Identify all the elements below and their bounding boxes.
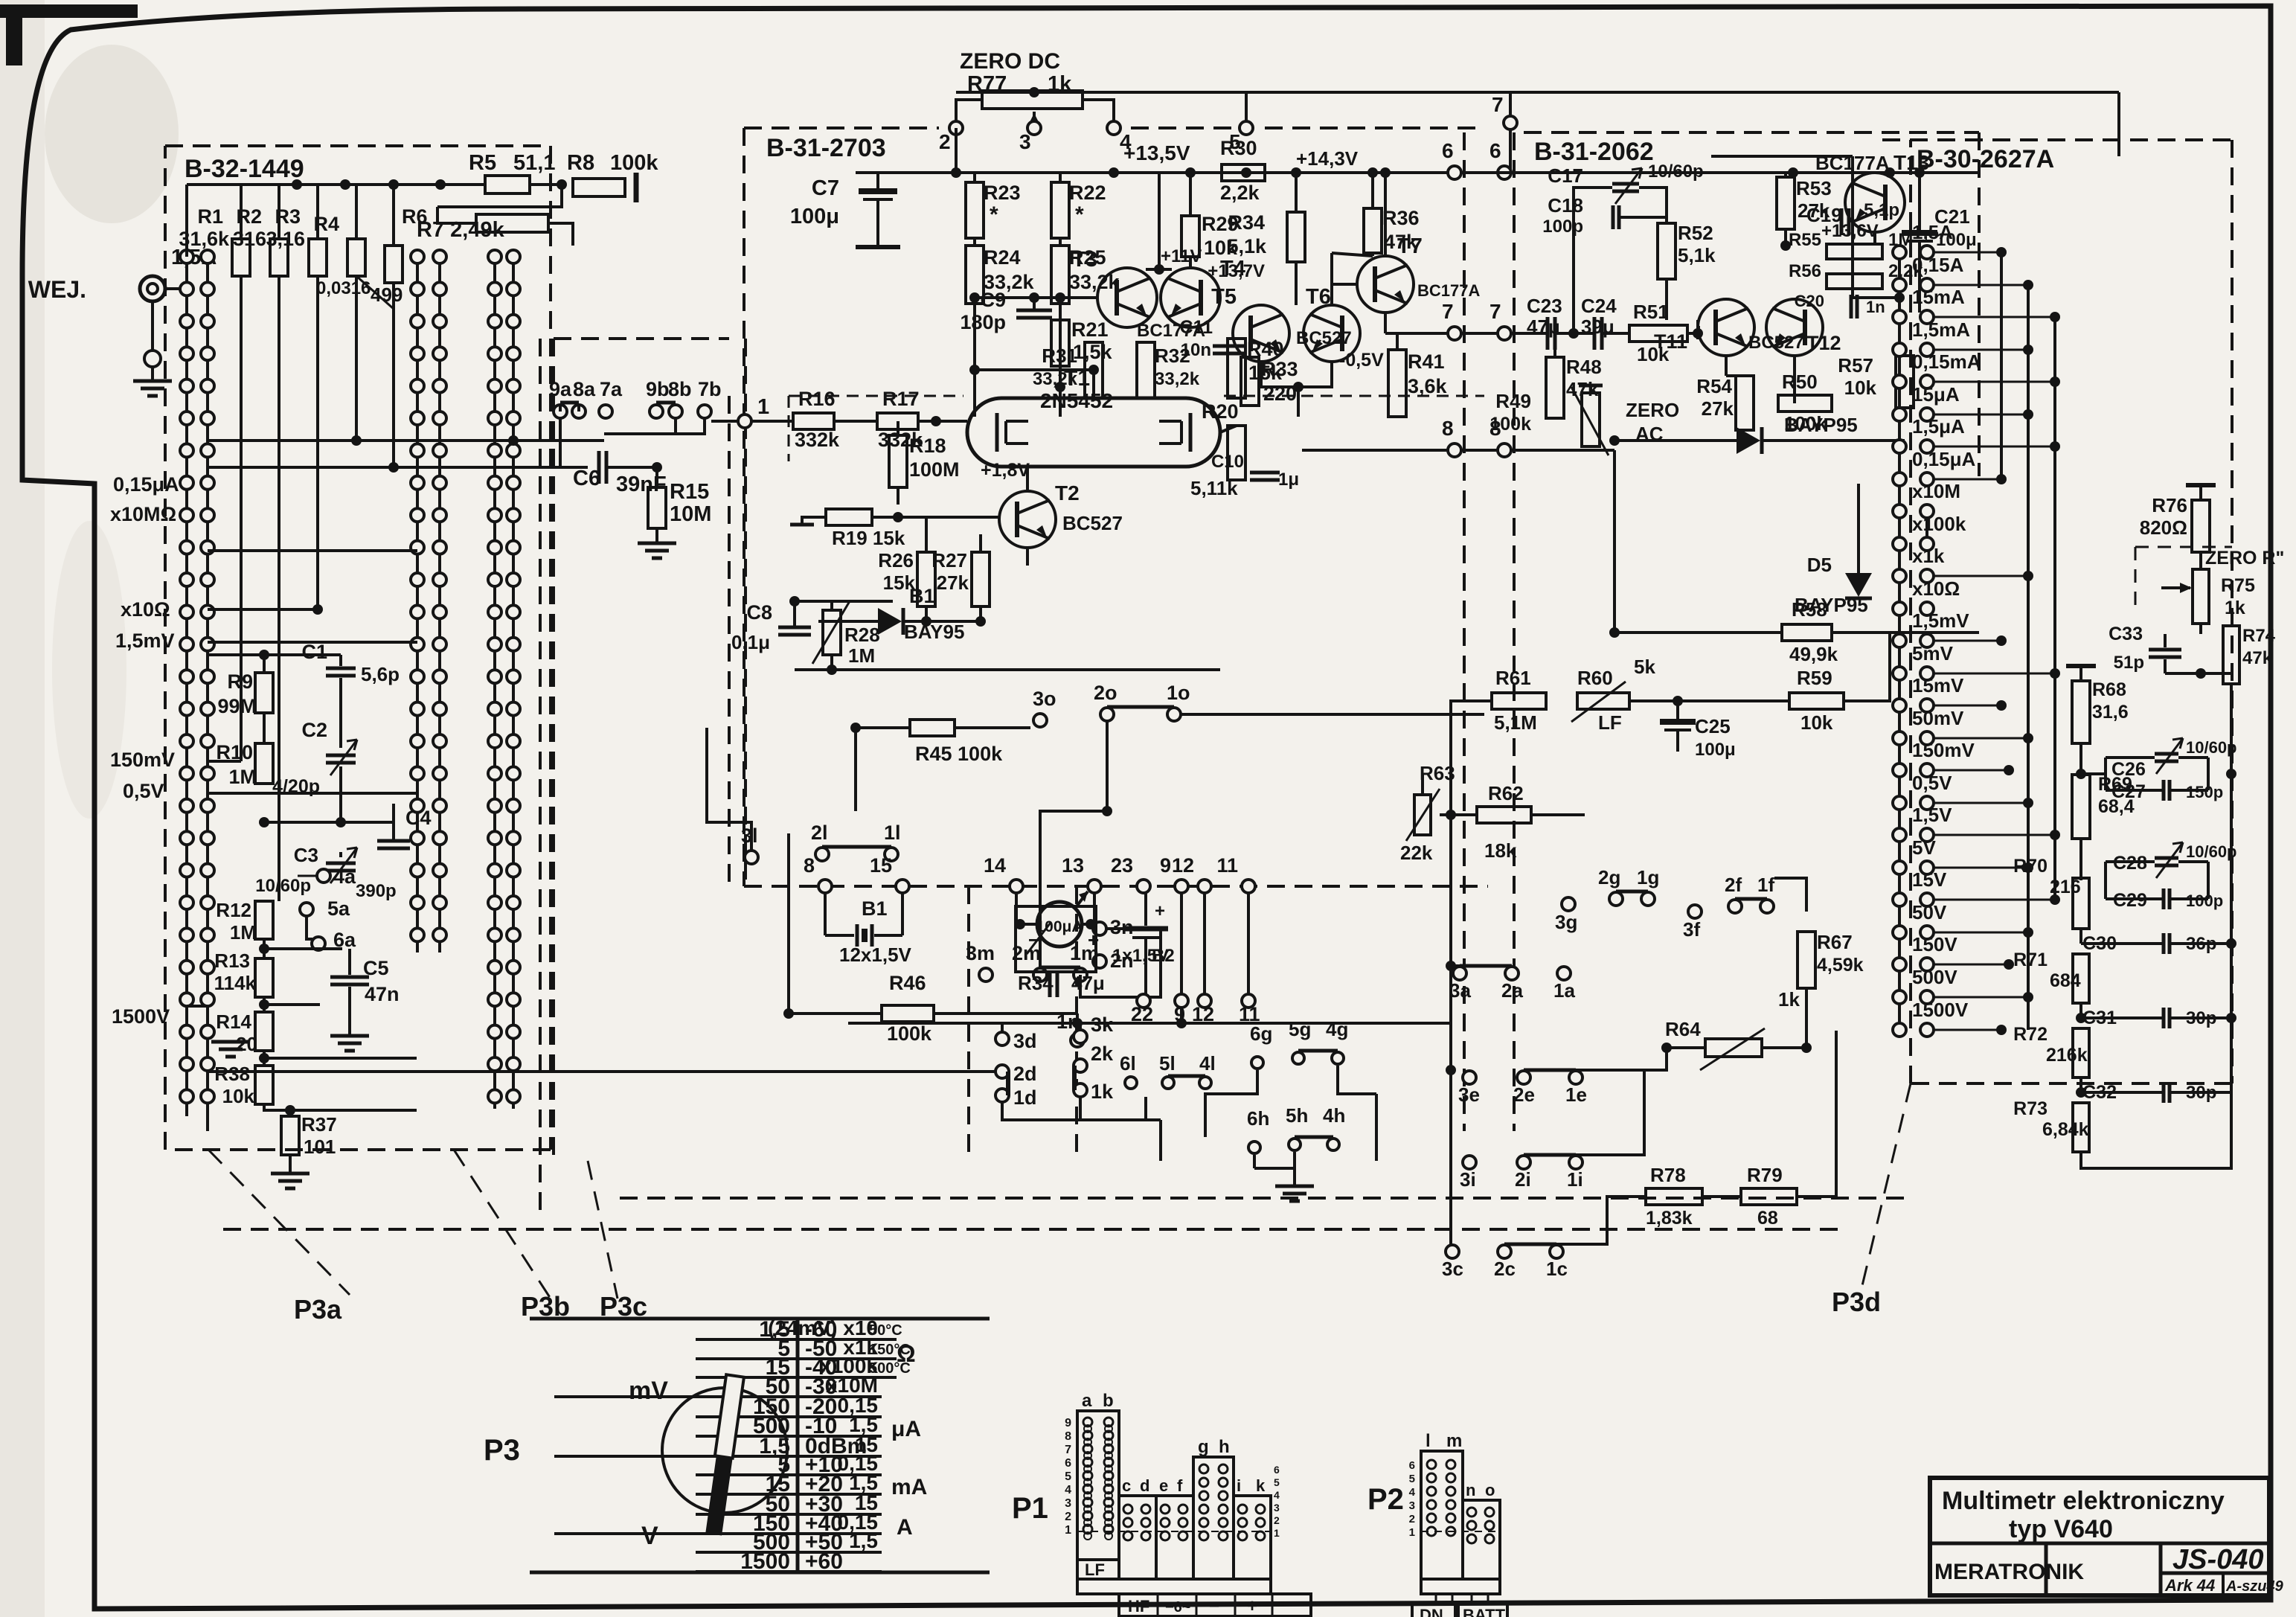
svg-text:5,1p: 5,1p <box>1864 200 1899 220</box>
wire C9 node <box>975 296 1060 299</box>
terminal ground leg <box>151 301 154 350</box>
svg-text:R12: R12 <box>216 899 251 921</box>
resistor R21 <box>1051 320 1069 366</box>
contact 3o <box>1033 714 1047 727</box>
svg-text:820Ω: 820Ω <box>2140 516 2187 539</box>
transistor T5 <box>1233 305 1289 362</box>
wire row to node 1 <box>711 420 738 423</box>
svg-text:2: 2 <box>1065 1511 1071 1523</box>
contact column A3 <box>416 257 419 952</box>
svg-text:o: o <box>1485 1481 1495 1499</box>
wire R9 top <box>263 655 266 673</box>
bridge 5l-4l <box>1168 1075 1205 1078</box>
resistor R57 <box>1896 356 1914 408</box>
resistor R12 <box>255 901 273 939</box>
svg-text:T11: T11 <box>1654 330 1687 353</box>
wire right drop to D top <box>2117 92 2120 156</box>
svg-text:5: 5 <box>1065 1470 1071 1483</box>
wire 2d bar <box>1006 1072 1010 1095</box>
contact pair 1,5mV <box>1893 634 1906 647</box>
wire R74 <box>2231 610 2232 626</box>
svg-text:3i: 3i <box>1460 1168 1476 1191</box>
svg-text:1,5: 1,5 <box>849 1529 878 1552</box>
wire 7b to node 1 <box>604 418 705 434</box>
wire D4 <box>1614 439 1737 442</box>
contact 8a <box>572 405 586 418</box>
resistor R46 <box>882 1005 934 1022</box>
svg-text:MERATRONIK: MERATRONIK <box>1934 1560 2084 1584</box>
svg-text:1,5k: 1,5k <box>1073 341 1113 363</box>
svg-text:216k: 216k <box>2046 1045 2088 1066</box>
transistor T4 <box>1161 268 1220 327</box>
resistor R33 <box>1241 357 1259 406</box>
svg-text:R76: R76 <box>2152 494 2187 516</box>
wire R5 to R8 <box>530 183 562 186</box>
resistor R23 <box>966 182 984 238</box>
svg-text:6h: 6h <box>1247 1107 1269 1130</box>
svg-text:R9: R9 <box>227 670 253 693</box>
ground <box>133 380 172 383</box>
wire C6 to R15 <box>607 466 657 469</box>
transistor T3 <box>1097 268 1157 327</box>
wire 9a down to C6 <box>560 418 588 467</box>
svg-text:1: 1 <box>757 395 769 419</box>
capacitor C32 <box>2162 1082 2166 1103</box>
wire C23-C24 <box>1556 332 1594 335</box>
battery B2 <box>1144 893 1147 926</box>
svg-text:47μ: 47μ <box>1071 972 1105 994</box>
diode B1 <box>878 608 902 635</box>
diode D5 <box>1845 573 1872 597</box>
svg-text:7b: 7b <box>698 378 722 400</box>
svg-text:Ω: Ω <box>897 1340 916 1367</box>
svg-text:R79: R79 <box>1747 1164 1783 1186</box>
P1 cd box <box>1119 1496 1156 1579</box>
resistor R54 <box>1736 376 1754 430</box>
svg-text:2: 2 <box>939 130 951 153</box>
contact 2m <box>1033 968 1047 982</box>
wire R78-R79 <box>1702 1195 1741 1198</box>
transistor T2 <box>999 491 1056 548</box>
wire R18 bottom <box>897 487 900 505</box>
svg-text:5h: 5h <box>1286 1104 1308 1127</box>
wire R64 right <box>1762 1046 1806 1049</box>
contact pair 150mV <box>1893 763 1906 777</box>
wire top row to 7 <box>956 91 2119 94</box>
P2 no box <box>1463 1500 1500 1579</box>
wire T12 emitter <box>1793 356 1796 403</box>
svg-text:+1,8V: +1,8V <box>981 460 1030 481</box>
svg-text:316: 316 <box>233 228 266 250</box>
resistor R45 <box>910 720 955 736</box>
svg-text:6g: 6g <box>1250 1022 1272 1045</box>
contact 6a <box>312 937 325 950</box>
svg-text:6: 6 <box>1065 1457 1071 1470</box>
svg-text:BAYP95: BAYP95 <box>1784 414 1858 436</box>
svg-text:m: m <box>1446 1431 1462 1451</box>
wire D5 <box>1858 441 1859 573</box>
resistor R20 <box>1228 426 1245 480</box>
contact column A2 <box>206 257 209 1116</box>
svg-text:h: h <box>1219 1437 1230 1457</box>
resistor R58 <box>1782 624 1832 641</box>
svg-text:+: + <box>1247 1596 1257 1616</box>
wire R61 left <box>1451 701 1492 714</box>
wire R73 bottom <box>2081 1092 2231 1168</box>
svg-text:8: 8 <box>804 854 815 877</box>
svg-text:2,2k: 2,2k <box>1220 182 1260 204</box>
svg-text:B1: B1 <box>862 897 888 920</box>
svg-text:2i: 2i <box>1515 1168 1531 1191</box>
svg-text:B-32-1449: B-32-1449 <box>185 155 304 183</box>
capacitor C11 <box>1213 345 1245 348</box>
node C4 join <box>264 821 394 824</box>
contacts 3a 2a 1a <box>1453 967 1466 980</box>
svg-text:V: V <box>641 1522 658 1550</box>
wire R8 left junction down <box>437 185 562 207</box>
svg-text:R19 15k: R19 15k <box>832 527 905 549</box>
svg-text:114k: 114k <box>214 972 257 994</box>
resistor R67 <box>1798 932 1815 988</box>
wire T7 up <box>1384 173 1387 256</box>
wire R16-R17 <box>834 420 877 423</box>
svg-text:c: c <box>1122 1476 1131 1495</box>
resistor R56 <box>1827 274 1882 289</box>
resistor R3 <box>309 239 327 276</box>
svg-text:R74: R74 <box>2242 626 2276 646</box>
svg-text:10k: 10k <box>222 1085 255 1107</box>
wire long row y592 <box>208 439 604 442</box>
wire right bus <box>2230 699 2233 1092</box>
svg-text:4: 4 <box>1274 1489 1280 1501</box>
svg-text:R37: R37 <box>301 1113 337 1136</box>
wire C17 box <box>1574 188 1612 333</box>
svg-text:R72: R72 <box>2013 1024 2048 1045</box>
svg-text:8: 8 <box>1442 417 1454 440</box>
svg-text:150V: 150V <box>1912 933 1957 955</box>
svg-text:14: 14 <box>984 854 1006 877</box>
svg-text:4h: 4h <box>1323 1104 1345 1127</box>
wire 3a row <box>1451 964 1460 967</box>
svg-text:C1: C1 <box>301 641 327 663</box>
contact pair 15V <box>1893 893 1906 906</box>
resistor R79 <box>1741 1188 1797 1205</box>
svg-text:B-31-2062: B-31-2062 <box>1534 138 1654 166</box>
block box B-31-2703 <box>744 127 939 129</box>
contact pair x10&#937; <box>1893 602 1906 615</box>
capacitor C3 trimmer <box>326 862 356 865</box>
capacitor C30 <box>2162 933 2166 954</box>
bus +13,5V <box>856 171 1484 174</box>
svg-text:2N5452: 2N5452 <box>1040 389 1113 412</box>
svg-text:6: 6 <box>1274 1464 1280 1476</box>
contact 5l <box>1162 1077 1174 1089</box>
svg-text:R36: R36 <box>1382 207 1420 229</box>
svg-text:12x1,5V: 12x1,5V <box>839 944 912 966</box>
svg-text:HF: HF <box>1128 1597 1149 1616</box>
svg-text:LF: LF <box>1085 1560 1105 1579</box>
svg-text:0,5V: 0,5V <box>123 780 164 802</box>
svg-text:+: + <box>1088 929 1099 951</box>
contact 3l <box>745 851 758 864</box>
contact 9 low <box>1175 994 1188 1008</box>
svg-text:1500V: 1500V <box>1912 999 1969 1021</box>
svg-text:101: 101 <box>304 1136 336 1158</box>
P3 top line left <box>530 1317 990 1321</box>
svg-text:a: a <box>1082 1391 1092 1411</box>
svg-text:R61: R61 <box>1495 667 1531 689</box>
wire WEJ to contact column <box>165 287 187 290</box>
wire 8 row <box>1302 449 1448 452</box>
svg-text:R62: R62 <box>1488 782 1524 804</box>
svg-text:1,5V: 1,5V <box>1912 804 1952 826</box>
wire R38-R37 <box>264 1104 290 1116</box>
resistor R38 <box>255 1066 273 1104</box>
P1 bottom strip <box>1077 1579 1271 1594</box>
svg-text:9a: 9a <box>549 378 572 400</box>
svg-text:9: 9 <box>1160 854 1171 877</box>
svg-text:49,9k: 49,9k <box>1789 643 1838 665</box>
svg-text:5V: 5V <box>1912 836 1936 859</box>
svg-text:T12: T12 <box>1806 332 1841 354</box>
svg-text:R60: R60 <box>1577 667 1613 689</box>
contact column A5 <box>493 257 496 1109</box>
capacitor C33 <box>2149 648 2181 652</box>
svg-text:9b: 9b <box>646 378 670 400</box>
svg-text:typ V640: typ V640 <box>2009 1515 2113 1543</box>
contact 9 box B bottom <box>1175 880 1188 893</box>
svg-text:5,1M: 5,1M <box>1494 711 1537 734</box>
leader dashes to P3d <box>1860 1083 1911 1295</box>
diode D4 <box>1737 427 1760 454</box>
resistor R37 <box>281 1116 299 1155</box>
contact 7a <box>599 405 612 418</box>
wire R55 net <box>1786 246 1827 252</box>
capacitor C9 <box>1016 309 1052 313</box>
svg-text:31,6: 31,6 <box>2092 702 2129 723</box>
capacitor C6 <box>597 451 601 484</box>
resistor R41 <box>1388 350 1406 417</box>
svg-text:100M: 100M <box>909 458 960 481</box>
svg-text:R54: R54 <box>1696 375 1732 397</box>
svg-text:g: g <box>1198 1437 1209 1457</box>
svg-text:2g: 2g <box>1598 866 1620 888</box>
svg-text:68,4: 68,4 <box>2098 796 2135 817</box>
wire T2 collector <box>1026 467 1029 491</box>
resistor R14 <box>255 1012 273 1051</box>
svg-text:7: 7 <box>1489 300 1501 323</box>
contacts 3c 2c 1c <box>1446 1245 1459 1258</box>
wire C30 <box>2079 929 2082 944</box>
svg-text:3m: 3m <box>966 942 995 964</box>
svg-text:5a: 5a <box>327 897 350 920</box>
P2 lm box <box>1421 1451 1463 1579</box>
svg-text:5,11k: 5,11k <box>1190 477 1238 499</box>
capacitor C31 <box>2162 1008 2166 1028</box>
svg-text:1,5mV: 1,5mV <box>115 630 175 652</box>
resistor R70 <box>2073 878 2089 929</box>
wire R58 <box>1614 631 1782 634</box>
svg-text:R50: R50 <box>1782 371 1818 393</box>
svg-text:R70: R70 <box>2013 856 2048 877</box>
svg-text:4: 4 <box>1409 1486 1416 1499</box>
svg-text:BC527: BC527 <box>1748 333 1804 353</box>
svg-text:15mA: 15mA <box>1912 286 1965 308</box>
svg-text:1M: 1M <box>228 766 257 788</box>
svg-text:Ark 44: Ark 44 <box>2164 1576 2215 1595</box>
svg-text:1,83k: 1,83k <box>1646 1208 1693 1229</box>
svg-text:2: 2 <box>1274 1514 1280 1526</box>
wire x1150 vertical <box>854 728 857 811</box>
svg-text:d: d <box>1140 1476 1149 1495</box>
svg-text:−: − <box>1028 929 1039 951</box>
resistor R19 <box>826 509 872 525</box>
svg-text:5g: 5g <box>1289 1018 1311 1040</box>
svg-text:R52: R52 <box>1678 222 1713 244</box>
svg-text:i: i <box>1237 1476 1241 1495</box>
wire R13-R14 <box>263 997 266 1012</box>
svg-text:1: 1 <box>1065 1524 1071 1537</box>
wire 2o down <box>1106 722 1109 811</box>
svg-text:R53: R53 <box>1796 177 1832 199</box>
contact pair 15&#956;A <box>1893 408 1906 421</box>
svg-text:100k: 100k <box>887 1022 932 1045</box>
wire 2o chain <box>1040 811 1107 967</box>
wire C31 <box>2079 1003 2082 1018</box>
svg-text:100k: 100k <box>1489 414 1531 435</box>
svg-text:T5: T5 <box>1211 285 1237 309</box>
svg-text:B1: B1 <box>909 585 935 607</box>
svg-text:12: 12 <box>1172 854 1194 877</box>
svg-text:*: * <box>1075 202 1084 227</box>
resistor R22 <box>1051 182 1069 238</box>
P2 dashed line <box>1421 1531 1500 1532</box>
wire join y905 <box>2165 672 2231 675</box>
R8 end bar <box>632 186 635 189</box>
wire R7 ends <box>437 207 476 223</box>
svg-text:100p: 100p <box>2186 891 2223 910</box>
contact 9a <box>554 405 567 418</box>
svg-text:3k: 3k <box>1091 1014 1114 1036</box>
wire 7 drop <box>1509 92 1512 116</box>
contact 3n <box>1093 922 1106 935</box>
capacitor C21 <box>1902 230 1937 236</box>
capacitor C24 <box>1593 317 1597 350</box>
contact 2k <box>1074 1059 1087 1072</box>
svg-text:3l: 3l <box>741 824 758 847</box>
svg-text:C25: C25 <box>1695 715 1731 737</box>
contact pair 150V <box>1893 958 1906 971</box>
wire R24 down <box>973 304 976 417</box>
svg-text:3: 3 <box>1019 130 1031 153</box>
block box B-32-1449 <box>165 144 551 147</box>
svg-text:390p: 390p <box>356 881 397 901</box>
capacitor C8 <box>778 626 811 630</box>
R19 left gnd <box>802 517 826 525</box>
wire R62 <box>1440 813 1477 816</box>
wire long y1560 <box>208 1160 1161 1162</box>
svg-text:18k: 18k <box>1484 839 1517 862</box>
resistor R9 <box>255 673 273 713</box>
wire R19 to T2 base <box>872 516 999 519</box>
contact 2l <box>815 848 829 861</box>
svg-text:+: + <box>1155 901 1165 921</box>
svg-text:1k: 1k <box>1091 1080 1114 1103</box>
svg-text:R31: R31 <box>1042 345 1077 367</box>
potentiometer R49 <box>1582 393 1600 446</box>
potentiometer R64 <box>1705 1039 1762 1057</box>
svg-text:R59: R59 <box>1797 667 1832 689</box>
contact pair 15mA <box>1893 310 1906 324</box>
wire x1060 vertical <box>787 833 790 1014</box>
svg-text:R58: R58 <box>1792 598 1827 621</box>
svg-text:R30: R30 <box>1220 137 1257 159</box>
x10M link <box>1926 519 1928 544</box>
contacts 7 row <box>1448 327 1461 340</box>
svg-text:0,15μA: 0,15μA <box>113 473 179 496</box>
svg-text:3a: 3a <box>1449 979 1471 1002</box>
meter 100uA <box>1016 906 1096 972</box>
contact 22 <box>1137 994 1150 1008</box>
wire T6 collector up <box>1330 253 1333 305</box>
svg-text:R69: R69 <box>2098 774 2132 795</box>
svg-text:R17: R17 <box>882 388 920 410</box>
svg-text:R64: R64 <box>1665 1018 1701 1040</box>
wire R17 to T1 <box>918 420 967 423</box>
P1 LF box <box>1077 1560 1119 1579</box>
R68 power bar <box>2066 664 2096 668</box>
svg-text:n: n <box>1466 1481 1475 1499</box>
resistor R68 <box>2072 681 2090 743</box>
wire R63 top <box>1421 774 1424 795</box>
svg-text:P2: P2 <box>1367 1483 1404 1516</box>
svg-text:2a: 2a <box>1501 979 1523 1002</box>
svg-text:R13: R13 <box>214 950 250 972</box>
contact pair 1500V <box>1893 1023 1906 1037</box>
svg-text:2k: 2k <box>1091 1043 1114 1065</box>
wire R53 <box>1784 173 1787 177</box>
T1 internal gates <box>995 413 999 452</box>
svg-text:1,5mA: 1,5mA <box>1912 318 1970 341</box>
wire R12-R13 <box>263 939 266 958</box>
svg-text:31,6k: 31,6k <box>179 228 230 250</box>
svg-text:+13,5V: +13,5V <box>1123 141 1190 164</box>
contact column A1 <box>185 257 188 1116</box>
svg-text:C5: C5 <box>363 957 389 979</box>
svg-text:R5: R5 <box>469 151 496 175</box>
1500V row wire <box>187 1005 208 1008</box>
svg-text:2f: 2f <box>1725 874 1742 896</box>
svg-text:47k: 47k <box>1384 231 1418 253</box>
svg-text:BATT: BATT <box>1463 1606 1506 1617</box>
contacts 6 row <box>1448 166 1461 179</box>
wire contact5 up <box>1245 92 1248 121</box>
contact pair 50mV <box>1893 731 1906 745</box>
svg-text:0,15A: 0,15A <box>1912 254 1964 276</box>
transistor T13 <box>1845 173 1905 232</box>
resistor R40 <box>1228 339 1245 398</box>
P2 DN BATT boxes <box>1412 1604 1455 1617</box>
wire long to 3c <box>1333 1152 1334 1161</box>
svg-text:ZERO: ZERO <box>1626 399 1679 421</box>
svg-text:0,15mA: 0,15mA <box>1912 350 1981 373</box>
wire 2c row <box>1556 1197 1646 1244</box>
resistor R55 <box>1827 244 1882 259</box>
svg-text:6: 6 <box>1409 1459 1415 1472</box>
svg-text:A-szu49: A-szu49 <box>2225 1578 2284 1595</box>
svg-text:1d: 1d <box>1013 1086 1037 1109</box>
wire T7 base <box>1332 283 1357 286</box>
